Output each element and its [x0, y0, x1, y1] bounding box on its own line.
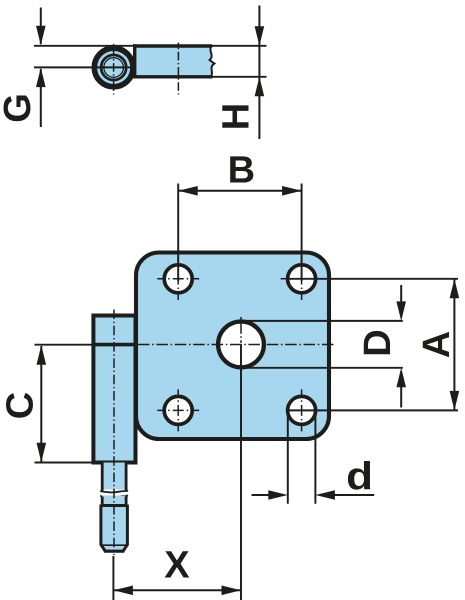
svg-text:H: H — [216, 103, 258, 130]
svg-text:A: A — [416, 331, 458, 358]
svg-text:C: C — [0, 392, 41, 419]
svg-text:D: D — [357, 329, 399, 356]
svg-text:d: d — [346, 454, 373, 498]
svg-text:G: G — [0, 93, 39, 123]
svg-text:B: B — [228, 149, 255, 191]
svg-text:X: X — [164, 545, 190, 587]
